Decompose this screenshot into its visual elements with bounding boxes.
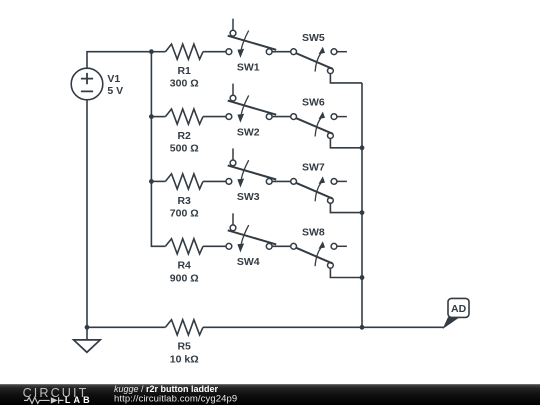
svg-text:R2: R2 <box>177 130 191 142</box>
resistor R4 <box>165 239 226 285</box>
wire right bus vertical <box>361 83 363 327</box>
junction dot left bus row 2 <box>149 114 154 119</box>
wire from V1 top to row 1 and left bus <box>87 52 151 69</box>
svg-text:700 Ω: 700 Ω <box>170 207 199 219</box>
wire SW1 to SW5 <box>272 51 291 53</box>
svg-text:SW6: SW6 <box>302 97 325 109</box>
wire SW5 throw to right bus <box>330 74 362 83</box>
switch SW2 <box>226 84 276 139</box>
svg-text:R1: R1 <box>177 65 191 77</box>
svg-text:SW4: SW4 <box>237 256 260 268</box>
wire left bus to R3 <box>151 180 165 182</box>
junction dot right bus SW6 <box>360 145 365 150</box>
wire SW8 throw to right bus <box>330 268 362 277</box>
switch SW1 <box>226 19 276 74</box>
switch SW3 <box>226 148 276 203</box>
svg-text:SW1: SW1 <box>237 61 260 73</box>
svg-text:SW3: SW3 <box>237 191 260 203</box>
svg-text:300 Ω: 300 Ω <box>170 78 199 90</box>
resistor R1 <box>165 44 226 90</box>
resistor R5 <box>165 320 203 366</box>
ground <box>74 327 101 352</box>
junction dot right bus bottom <box>360 325 365 330</box>
wire SW4 to SW8 <box>272 245 291 247</box>
switch SW4 <box>226 213 276 268</box>
junction dot left bus row 3 <box>149 179 154 184</box>
wire SW6 throw to right bus <box>330 139 362 148</box>
junction dot left bus row 1 <box>149 49 154 54</box>
svg-text:AD: AD <box>451 303 467 315</box>
svg-text:kugge / r2r button ladder: kugge / r2r button ladder <box>114 384 219 394</box>
footer bar <box>0 384 540 405</box>
wire from V1 bottom to ground node <box>86 100 88 327</box>
wire R5 to node AD <box>203 326 444 328</box>
svg-text:SW5: SW5 <box>302 32 325 44</box>
junction dot right bus SW7 <box>360 210 365 215</box>
wire ground node to R5 <box>87 326 165 328</box>
svg-text:R4: R4 <box>177 260 191 272</box>
junction dot right bus SW8 <box>360 275 365 280</box>
svg-text:R5: R5 <box>177 341 191 353</box>
voltage source V1 <box>71 68 123 100</box>
svg-text:SW2: SW2 <box>237 126 260 138</box>
resistor R3 <box>165 174 226 220</box>
CircuitLab logo diode symbol <box>51 397 58 403</box>
node AD flag <box>444 298 469 327</box>
svg-text:10 kΩ: 10 kΩ <box>170 353 199 365</box>
wire left bus to R1 <box>151 51 165 53</box>
svg-text:http://circuitlab.com/cyg24p9: http://circuitlab.com/cyg24p9 <box>114 394 237 405</box>
svg-text:SW8: SW8 <box>302 226 325 238</box>
wire SW2 to SW6 <box>272 116 291 118</box>
switch SW5 <box>291 32 347 74</box>
junction dot ground node <box>85 325 90 330</box>
svg-text:V1: V1 <box>107 73 120 85</box>
svg-text:SW7: SW7 <box>302 162 325 174</box>
wire SW3 to SW7 <box>272 180 291 182</box>
switch SW8 <box>291 226 347 268</box>
switch SW7 <box>291 162 347 204</box>
wire SW7 throw to right bus <box>330 203 362 212</box>
switch SW6 <box>291 97 347 139</box>
svg-text:500 Ω: 500 Ω <box>170 143 199 155</box>
wire left bus to R2 <box>151 116 165 118</box>
CircuitLab logo resistor squiggle <box>24 397 50 403</box>
wire left bus vertical with corner to R4 row <box>151 52 165 247</box>
resistor R2 <box>165 109 226 155</box>
svg-text:R3: R3 <box>177 195 191 207</box>
svg-text:900 Ω: 900 Ω <box>170 272 199 284</box>
svg-text:5 V: 5 V <box>107 85 123 97</box>
svg-text:LAB: LAB <box>65 395 93 405</box>
